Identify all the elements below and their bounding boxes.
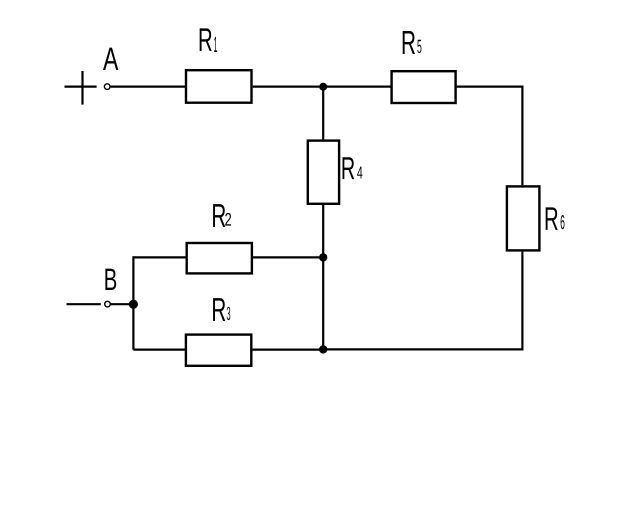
wire R4 to node N2 — [322, 205, 324, 257]
wire lead into terminal B — [67, 303, 101, 305]
wire R3 right to node N3 — [253, 349, 324, 351]
label R5 — [403, 31, 422, 54]
resistor R5 — [392, 71, 456, 103]
terminal B open circle — [105, 301, 111, 307]
wire R2 left and branch down to R3 — [133, 256, 185, 349]
wire R6 to bottom-right corner to node N3 — [323, 252, 523, 350]
wire R5 to top-right corner down to R6 — [457, 86, 523, 186]
wire branch to R3 left — [133, 349, 185, 351]
label R2 — [213, 204, 231, 227]
wire B circle to node NB — [111, 303, 133, 305]
label R3 — [213, 298, 230, 321]
node N1 junction dot — [319, 83, 327, 91]
node NB junction dot — [129, 300, 138, 309]
label A — [103, 48, 118, 70]
label B — [105, 269, 116, 290]
resistor R6 — [507, 186, 540, 250]
label R6 — [546, 207, 565, 230]
resistor R4 — [308, 141, 339, 204]
label R4 — [343, 157, 363, 179]
resistor R3 — [186, 335, 251, 366]
terminal A polarity cross — [65, 71, 97, 105]
wire R2 right to node N2 — [253, 256, 323, 258]
wire A to R1 — [111, 85, 185, 87]
label R1 — [200, 28, 218, 52]
node N2 junction dot — [319, 253, 327, 261]
wire N1 to R5 — [323, 85, 390, 87]
wire node N2 to node N3 — [322, 257, 324, 349]
terminal A open circle — [104, 84, 110, 90]
resistor R2 — [187, 243, 252, 273]
wire node N1 down to R4 — [322, 87, 324, 140]
resistor R1 — [186, 70, 252, 103]
node N3 junction dot — [319, 345, 327, 353]
wire R1 to node N1 — [253, 85, 324, 87]
